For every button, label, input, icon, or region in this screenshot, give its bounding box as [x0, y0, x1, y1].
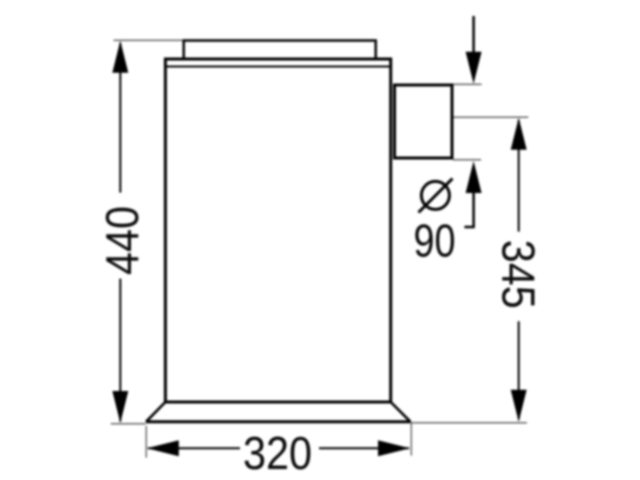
svg-text:440: 440: [96, 206, 148, 275]
svg-text:345: 345: [493, 240, 545, 309]
svg-text:320: 320: [243, 427, 312, 479]
svg-text:90: 90: [414, 215, 456, 267]
